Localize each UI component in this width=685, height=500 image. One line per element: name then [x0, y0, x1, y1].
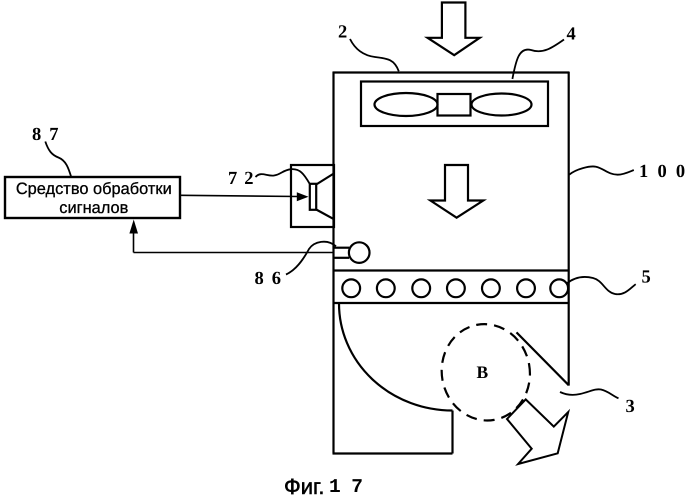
- chute right edge: [451, 411, 453, 454]
- leader for label 5: [566, 277, 636, 294]
- roller 3: [412, 279, 430, 297]
- arrowhead: feedback into signal box 87: [129, 220, 138, 234]
- signal processor 87: text: [16, 180, 172, 217]
- region B dashed ellipse: [434, 317, 537, 427]
- svg-text:Фиг.: Фиг.: [284, 474, 324, 499]
- svg-text:5: 5: [642, 268, 651, 288]
- roller 1: [342, 279, 360, 297]
- svg-text:2: 2: [338, 23, 347, 43]
- svg-text:87: 87: [32, 125, 67, 145]
- sensor 86: mount stub bottom: [334, 257, 349, 259]
- fan hub: [438, 94, 471, 116]
- fan blade left: [375, 93, 438, 116]
- speaker 72: outer box: [291, 165, 334, 227]
- roller 7: [550, 279, 568, 297]
- internal airflow arrow (hollow): [430, 165, 483, 218]
- leader for label 100: [569, 166, 634, 174]
- leader for label 3: [560, 389, 619, 398]
- svg-text:сигналов: сигналов: [59, 199, 128, 217]
- fan blade right: [472, 94, 532, 116]
- roller 2: [377, 279, 395, 297]
- inlet air arrow (hollow, top): [428, 3, 480, 56]
- speaker 72: driver rectangle: [310, 184, 316, 210]
- svg-text:100: 100: [639, 162, 685, 182]
- outlet diagonal guide 3: [517, 332, 569, 385]
- wire: signal box to speaker 72: [181, 195, 298, 196]
- svg-text:3: 3: [626, 397, 635, 417]
- leader for label 2: [350, 39, 399, 71]
- roller 6: [517, 279, 535, 297]
- sensor 86: circle: [349, 242, 370, 263]
- roller 4: [447, 279, 465, 297]
- housing 100: top wall: [333, 71, 570, 73]
- scroll guide curve (bottom left chute): [339, 304, 453, 411]
- speaker 72: cone upper line: [316, 174, 333, 185]
- wire: sensor 86 feedback riser: [133, 231, 135, 253]
- svg-text:17: 17: [329, 476, 373, 498]
- arrowhead: wire into speaker 72: [297, 192, 309, 201]
- svg-text:72: 72: [228, 169, 261, 189]
- svg-text:В: В: [477, 362, 489, 382]
- housing 100: left wall: [332, 72, 334, 454]
- leader for label 87: [45, 142, 71, 178]
- signal processor box 87: [5, 177, 180, 218]
- svg-text:86: 86: [255, 269, 290, 289]
- wire: sensor 86 feedback horizontal: [134, 252, 335, 254]
- roller band 5: bottom line: [333, 302, 569, 304]
- leader for label 72: [256, 169, 310, 183]
- figure caption: [284, 474, 373, 499]
- speaker 72: cone lower line: [316, 210, 333, 219]
- roller 5: [482, 279, 500, 297]
- sensor 86: mount stub top: [334, 247, 349, 249]
- outlet arrow (hollow, down-right): [507, 399, 568, 464]
- leader for label 86: [286, 242, 336, 275]
- fan housing 4: [361, 82, 548, 127]
- housing 100: right wall: [568, 72, 570, 386]
- leader for label 4: [512, 40, 564, 79]
- roller band 5: top line: [333, 269, 569, 271]
- svg-text:4: 4: [567, 25, 576, 45]
- svg-text:Средство обработки: Средство обработки: [16, 180, 172, 198]
- chute bottom edge: [333, 452, 453, 454]
